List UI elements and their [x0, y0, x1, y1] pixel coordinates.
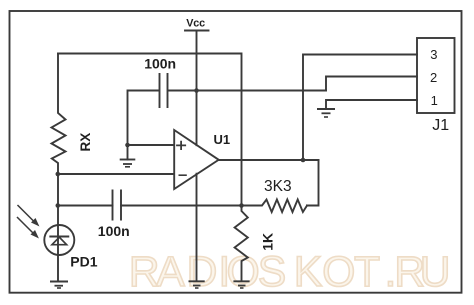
svg-text:U1: U1: [214, 132, 231, 147]
svg-text:2: 2: [430, 70, 437, 85]
svg-text:100n: 100n: [98, 223, 130, 239]
svg-text:1: 1: [431, 93, 438, 108]
svg-text:Vcc: Vcc: [186, 18, 205, 30]
svg-text:100n: 100n: [144, 56, 176, 72]
svg-text:PD1: PD1: [70, 254, 97, 270]
svg-text:1K: 1K: [259, 233, 275, 251]
svg-text:3K3: 3K3: [264, 178, 292, 195]
svg-text:RX: RX: [78, 133, 93, 152]
svg-text:3: 3: [430, 47, 437, 62]
svg-text:J1: J1: [432, 117, 449, 134]
